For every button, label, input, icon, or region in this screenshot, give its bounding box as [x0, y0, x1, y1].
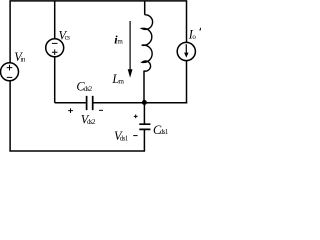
capacitor Cds1 plates: [139, 124, 150, 129]
Io' arrow inside: [185, 44, 187, 53]
svg-text:m: m: [117, 38, 123, 46]
Vin plus sign: [7, 65, 13, 71]
wire Vcs branch upper: [54, 1, 56, 39]
voltage source Vcs circle: [46, 39, 64, 57]
wire Cds1 stub upper: [143, 103, 145, 124]
svg-text:ds1: ds1: [160, 128, 169, 136]
voltage source Vin circle: [1, 63, 19, 81]
Vin minus sign: [7, 76, 13, 78]
wire top horizontal: [9, 0, 187, 2]
node junction dot: [142, 100, 147, 105]
svg-text:ds1: ds1: [120, 134, 129, 142]
wire Vcs branch lower: [54, 57, 56, 103]
current arrow im: [129, 21, 131, 70]
minus sign below Cds1 left: [133, 135, 137, 137]
svg-text:m: m: [119, 77, 125, 85]
current source Io' circle: [177, 42, 195, 60]
svg-text:ds2: ds2: [87, 118, 96, 126]
wire inductor branch top: [144, 1, 146, 15]
svg-text:ds2: ds2: [84, 85, 93, 93]
minus sign right of Cds2: [99, 109, 103, 111]
wire right vertical lower: [186, 61, 188, 104]
plus sign left of Cds2: [68, 108, 73, 113]
inductor Lm coil: [142, 15, 153, 71]
svg-text:o: o: [192, 33, 196, 41]
Vcs minus sign: [52, 42, 58, 44]
plus sign above Cds1: [134, 115, 138, 119]
wire middle horizontal left of Cds2: [55, 102, 86, 104]
Vcs plus sign: [52, 49, 58, 55]
wire left vertical upper: [9, 1, 11, 63]
svg-text:cs: cs: [65, 34, 71, 42]
wire bottom horizontal: [9, 150, 145, 152]
wire left vertical lower: [9, 81, 11, 151]
wire Cds1 stub lower: [143, 130, 145, 151]
capacitor Cds2 plates: [87, 96, 93, 110]
wire right vertical upper: [186, 1, 188, 43]
wire middle horizontal right of Cds2: [93, 102, 187, 104]
wire inductor branch bottom: [143, 71, 145, 103]
